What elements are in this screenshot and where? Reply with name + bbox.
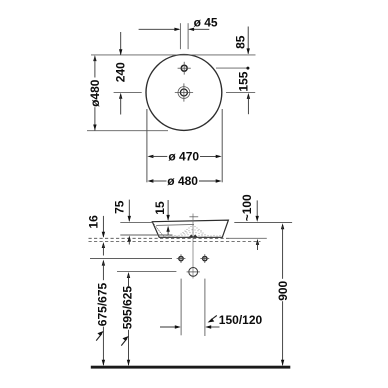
countertop dashed top line	[89, 237, 230, 239]
150/120 extension line left	[180, 279, 182, 336]
svg-text:75: 75	[113, 200, 127, 214]
dimension 85 line	[247, 27, 250, 55]
svg-text:240: 240	[114, 62, 128, 82]
drain line front view	[117, 270, 176, 272]
dimension 155 arrow	[247, 93, 250, 114]
svg-text:ø480: ø480	[88, 79, 102, 107]
rim extension line right	[234, 222, 292, 224]
countertop dashed bottom line	[89, 241, 261, 243]
dimension 150/120 arrows	[160, 316, 220, 329]
dimension 15	[166, 200, 169, 235]
diameter extension line left	[146, 109, 148, 182]
dimension ø45 extension lines	[179, 23, 181, 49]
dimension ø480 bottom	[147, 179, 221, 182]
tap hole left	[177, 254, 186, 263]
dimension ~100	[256, 200, 260, 250]
svg-text:16: 16	[86, 215, 100, 229]
basin top view circle	[146, 55, 222, 131]
side view inner rim line	[156, 224, 194, 227]
tap holes line	[90, 258, 172, 260]
svg-text:15: 15	[153, 201, 167, 215]
side view basin outline	[152, 220, 228, 237]
drain outlet front view	[187, 268, 200, 277]
diameter extension line right	[221, 109, 223, 182]
circle bottom tangent extension line	[87, 130, 168, 132]
svg-text:900: 900	[276, 280, 290, 300]
150/120 extension line right	[204, 279, 206, 336]
svg-text:ø 45: ø 45	[194, 16, 218, 30]
dimension ø470	[147, 155, 221, 158]
faucet hole	[178, 62, 191, 75]
rim extension line left	[120, 221, 152, 223]
drain hole	[175, 83, 193, 101]
drain extension line right	[226, 91, 255, 93]
svg-text:ø 480: ø 480	[167, 174, 198, 188]
svg-text:85: 85	[233, 35, 247, 49]
svg-text:675/675: 675/675	[96, 282, 110, 326]
side view stipple shading	[154, 224, 221, 237]
floor line	[91, 366, 290, 369]
countertop solid right segment	[229, 237, 267, 239]
75 reference line	[120, 234, 172, 236]
faucet extension line right with chain dot	[216, 67, 249, 70]
svg-text:155: 155	[236, 71, 250, 91]
dimension 16	[102, 216, 105, 256]
drain extension line left	[114, 91, 142, 93]
tap hole right	[200, 254, 209, 263]
circle top tangent extension line	[91, 54, 256, 56]
centerline tick	[189, 216, 198, 218]
side view centerline	[192, 214, 194, 279]
dimension ø480 vertical line	[93, 55, 96, 130]
dimension 675/675	[96, 260, 105, 366]
dimension ø45 arrows	[139, 28, 210, 31]
svg-text:595/625: 595/625	[121, 286, 135, 330]
svg-text:ø 470: ø 470	[168, 150, 199, 164]
svg-text:~100: ~100	[240, 194, 254, 221]
dimension 240 line	[119, 32, 122, 115]
dimension 595/625	[121, 272, 130, 366]
svg-text:150/120: 150/120	[219, 313, 263, 327]
dimension 75	[128, 200, 131, 245]
dimension 900	[281, 223, 284, 366]
side view drain section mark	[189, 234, 197, 237]
